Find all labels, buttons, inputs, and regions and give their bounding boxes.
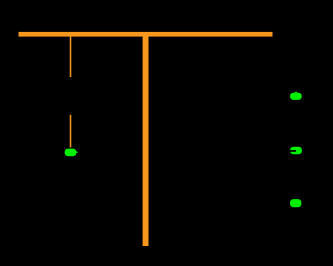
wire: horizontal power bus xyxy=(19,32,273,37)
wire: thick vertical branch xyxy=(143,37,149,247)
LED D4 (right bottom, lit green) xyxy=(290,199,301,207)
LED D3 (right middle, lit green, notched) xyxy=(289,147,302,154)
wire: left branch upper segment xyxy=(70,37,72,78)
LED D2 (right top, lit green) xyxy=(290,92,302,100)
LED D1 (left, lit green) xyxy=(65,149,78,157)
wire: left branch lower segment xyxy=(70,115,72,148)
